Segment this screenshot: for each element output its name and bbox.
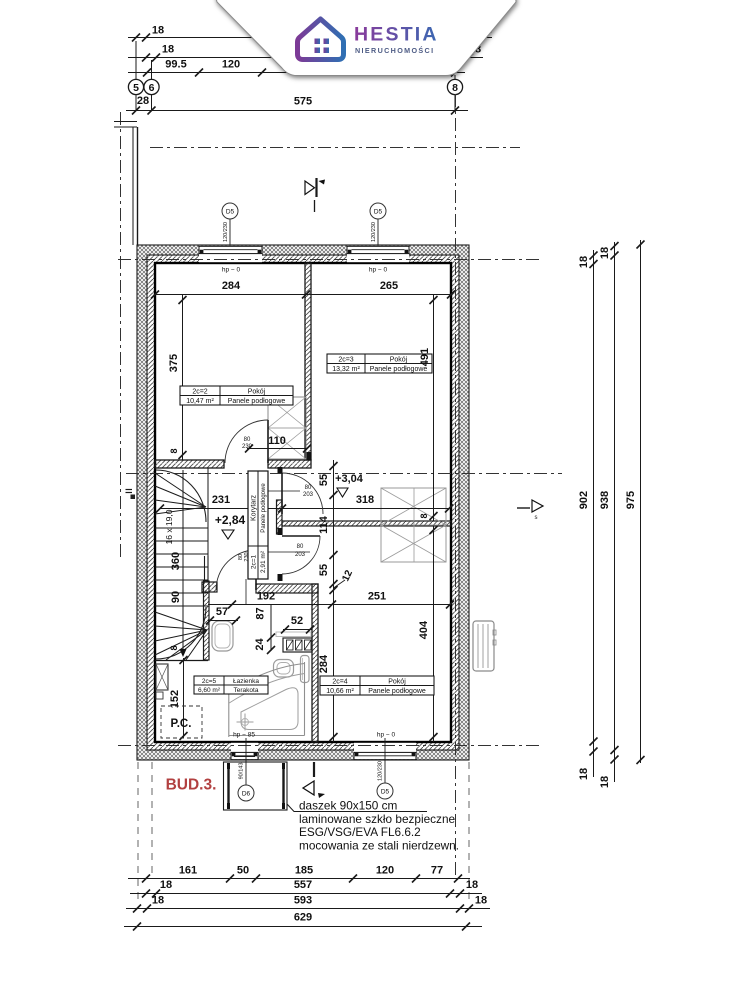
window marker D6 bottom	[245, 738, 247, 787]
interior wall C (thin partition at +3.04)	[282, 521, 451, 526]
svg-text:8: 8	[419, 513, 429, 518]
outer wall layer line	[147, 255, 459, 750]
grid bubble 8	[447, 79, 462, 94]
logo trapezoid card	[214, 0, 516, 76]
svg-text:120/230: 120/230	[371, 222, 377, 242]
svg-text:80: 80	[244, 437, 251, 443]
dim chain 18 (top line2)	[128, 57, 483, 59]
door jamb at wall B bottom	[305, 452, 312, 460]
stair curve top	[156, 470, 206, 522]
svg-text:203: 203	[295, 552, 306, 558]
svg-text:360: 360	[170, 552, 182, 570]
stair winders bottom	[155, 612, 207, 630]
interior wall B (between top rooms)	[305, 263, 311, 460]
wall axis centerline bottom	[118, 745, 540, 747]
svg-text:185: 185	[295, 865, 313, 877]
svg-text:18: 18	[475, 895, 487, 907]
left wall exterior marks	[126, 489, 133, 491]
svg-text:284: 284	[222, 280, 241, 292]
svg-text:P.C.: P.C.	[171, 718, 192, 730]
room table 2c=4 Pokoj	[320, 676, 434, 695]
left roof edge bracket	[114, 121, 137, 123]
room table 2c=5 Lazienka	[194, 676, 268, 694]
svg-text:192: 192	[257, 591, 275, 603]
svg-text:D5: D5	[374, 209, 383, 216]
stairwell right wall upper	[204, 556, 206, 581]
svg-text:Korytarz: Korytarz	[251, 494, 258, 521]
dim 404 (room 2c=4 height)	[433, 526, 435, 742]
svg-text:575: 575	[294, 96, 312, 108]
svg-text:2c=1: 2c=1	[251, 554, 258, 569]
dim chain 18/902/18 (right)	[593, 250, 595, 777]
svg-text:6,60 m²: 6,60 m²	[198, 687, 221, 694]
door D4 bathroom	[255, 550, 257, 590]
window O2 (top right, 120/230)	[347, 246, 409, 262]
svg-text:mocowania ze stali nierdzewn.: mocowania ze stali nierdzewn.	[299, 839, 459, 853]
svg-text:318: 318	[356, 494, 374, 506]
svg-text:2c=5: 2c=5	[202, 678, 217, 685]
svg-text:52: 52	[291, 615, 303, 627]
stair curve bottom	[156, 607, 206, 659]
svg-text:203: 203	[303, 492, 314, 498]
bathroom sink	[212, 621, 233, 651]
svg-text:251: 251	[368, 591, 386, 603]
svg-text:Łazienka: Łazienka	[233, 678, 259, 685]
dim 231 / 318	[160, 508, 449, 510]
svg-text:80: 80	[297, 544, 304, 550]
grid 5 stem	[135, 41, 137, 79]
svg-text:8: 8	[169, 645, 179, 650]
stair winders top	[155, 473, 206, 507]
svg-text:55: 55	[318, 474, 330, 486]
svg-text:938: 938	[599, 491, 611, 509]
canopy daszek outline	[224, 762, 288, 810]
dim chain 18/938/18 (right)	[614, 242, 616, 782]
interior wall A2 (below room 2c=2, right part)	[268, 460, 311, 468]
door D3 lower corridor (80/203)	[282, 535, 320, 537]
window marker D5 bottom	[384, 738, 386, 783]
stairwell right wall lower (hatched)	[204, 581, 210, 660]
svg-text:Panele podłogowe: Panele podłogowe	[261, 483, 267, 533]
svg-text:18: 18	[578, 768, 590, 780]
svg-text:152: 152	[169, 690, 181, 708]
logo house window	[315, 39, 321, 45]
svg-text:77: 77	[431, 865, 443, 877]
logo house icon	[298, 19, 344, 60]
svg-text:120/230: 120/230	[223, 222, 229, 242]
svg-text:90: 90	[170, 591, 182, 603]
svg-text:13,32 m²: 13,32 m²	[332, 366, 360, 373]
svg-text:Panele podłogowe: Panele podłogowe	[368, 688, 426, 695]
outer wall outer face	[137, 245, 469, 760]
section marker bottom	[313, 762, 315, 777]
dim 52	[283, 629, 312, 631]
ridge axis centerline middle	[126, 473, 562, 475]
PC dashed box	[161, 706, 202, 738]
window O3 (bottom right, 120/230)	[354, 743, 416, 759]
svg-text:120: 120	[376, 865, 394, 877]
grid 8 stem	[454, 75, 456, 79]
svg-text:557: 557	[294, 879, 312, 891]
svg-text:2c=3: 2c=3	[338, 356, 353, 363]
svg-text:18: 18	[466, 879, 478, 891]
svg-text:Panele podłogowe: Panele podłogowe	[228, 398, 286, 405]
corridor dim extension	[245, 579, 247, 604]
svg-text:161: 161	[179, 865, 197, 877]
window O4 (bottom bathroom, hp 85)	[231, 743, 258, 759]
svg-text:10,66 m²: 10,66 m²	[326, 688, 354, 695]
interior wall D (bathroom right)	[312, 584, 318, 742]
outer wall crosshatch band	[137, 245, 469, 255]
interior wall E2 (bathroom top, right part)	[256, 584, 318, 593]
dim chain 99.5 / 120 (top line3)	[128, 72, 465, 74]
dim chain 18/593/18 (bottom line3)	[126, 908, 490, 910]
washing machine	[276, 632, 311, 637]
dim 110 (closet)	[247, 448, 308, 450]
room table 2c=3 Pokoj	[327, 354, 432, 373]
stair treads	[155, 527, 208, 529]
left lower guide dashes	[137, 762, 139, 905]
svg-text:284: 284	[318, 654, 330, 673]
dim 491 (room 2c=3 height)	[433, 295, 435, 522]
left roof edge double line	[132, 127, 134, 245]
svg-text:230: 230	[242, 444, 253, 450]
svg-text:57: 57	[216, 606, 228, 618]
dim 375 (room 2c=2 height)	[182, 295, 184, 461]
svg-text:HESTIA: HESTIA	[354, 24, 439, 46]
dim 12 leader	[334, 580, 346, 588]
svg-text:18: 18	[162, 44, 174, 56]
svg-text:120/230: 120/230	[378, 761, 384, 781]
svg-text:87: 87	[255, 607, 267, 619]
dim chain 975 (right)	[640, 240, 642, 763]
stair walking line	[182, 470, 184, 650]
dim chain 629 (bottom line4)	[124, 926, 482, 928]
svg-text:10,47 m²: 10,47 m²	[186, 398, 214, 405]
svg-text:55: 55	[318, 564, 330, 576]
svg-text:90/143: 90/143	[239, 763, 245, 780]
svg-text:18: 18	[578, 256, 590, 268]
dim 284 (x=333 lower)	[333, 605, 335, 743]
threshold lines window O4	[234, 756, 255, 758]
window marker D5 top-right	[377, 219, 379, 245]
dim chain 161/50/185/120/77 (bottom line1)	[128, 878, 470, 880]
canopy leader line	[287, 804, 427, 812]
radiator (outside right wall)	[473, 621, 494, 671]
bathtub corner	[304, 662, 306, 736]
section marker top	[305, 181, 315, 195]
skylight boxes	[381, 488, 446, 562]
wall axis grid-8 vertical	[455, 94, 457, 876]
svg-text:laminowane szkło bezpieczne: laminowane szkło bezpieczne	[299, 812, 456, 826]
outer wall inner hatch band	[147, 255, 459, 263]
svg-text:2,91 m²: 2,91 m²	[260, 550, 267, 573]
svg-text:491: 491	[419, 348, 431, 366]
dim 57	[208, 620, 238, 622]
dim 192 / 251 (y=604)	[208, 604, 451, 606]
grid 6 stem	[151, 60, 153, 79]
dim chain 18/557/18 (bottom line2)	[130, 893, 482, 895]
svg-text:110: 110	[268, 435, 286, 447]
svg-text:6: 6	[149, 82, 155, 94]
svg-text:2c=2: 2c=2	[192, 388, 207, 395]
svg-text:Pokój: Pokój	[390, 356, 408, 363]
svg-text:28: 28	[137, 95, 149, 107]
stair boundary bottom	[155, 660, 208, 662]
door D2 upper corridor (80/203)	[281, 473, 283, 514]
svg-text:24: 24	[254, 638, 266, 651]
svg-text:230: 230	[244, 552, 250, 561]
roof ridge centerline	[150, 147, 520, 149]
dim 152 (PC area)	[183, 658, 185, 738]
door D3 size label	[262, 551, 310, 553]
svg-text:120: 120	[222, 59, 240, 71]
boiler on left wall	[156, 664, 168, 690]
svg-text:99.5: 99.5	[165, 59, 186, 71]
room table 2c=2 Pokoj	[180, 386, 293, 405]
interior wall E1 (bathroom top, left stub)	[202, 582, 217, 592]
svg-text:16 x 19,0: 16 x 19,0	[164, 509, 174, 544]
svg-text:daszek 90x150 cm: daszek 90x150 cm	[299, 799, 398, 813]
svg-text:hp − 0: hp − 0	[369, 267, 388, 274]
svg-text:D6: D6	[242, 791, 251, 798]
svg-text:404: 404	[418, 620, 430, 639]
svg-text:hp − 0: hp − 0	[222, 267, 241, 274]
svg-text:593: 593	[294, 895, 312, 907]
svg-text:902: 902	[578, 491, 590, 509]
svg-text:BUD.3.: BUD.3.	[166, 777, 217, 794]
interior wall stub (corridor right)	[277, 500, 283, 534]
grid bubble 6	[144, 79, 159, 94]
svg-text:Pokój: Pokój	[388, 678, 406, 685]
door jamb blocks corridor	[278, 467, 283, 474]
dim chain 55/114/55/12 (x=333)	[333, 460, 335, 604]
closet with X (room 2c=2)	[268, 397, 306, 459]
svg-text:8: 8	[452, 82, 458, 94]
dim 87 / 24 (x=271)	[270, 605, 272, 652]
toilet	[274, 660, 294, 678]
right lower guide dashes	[468, 762, 470, 905]
window marker D5 top-left	[229, 219, 231, 245]
svg-text:375: 375	[168, 354, 180, 372]
svg-text:50: 50	[237, 865, 249, 877]
svg-text:+3,04: +3,04	[335, 473, 364, 485]
svg-text:629: 629	[294, 912, 312, 924]
interior wall A1 (below room 2c=2, left part)	[155, 460, 224, 468]
svg-text:80: 80	[305, 485, 312, 491]
dim chain 18 (top line1)	[128, 37, 492, 39]
svg-text:2c=4: 2c=4	[332, 678, 347, 685]
grid bubble 5	[128, 79, 143, 94]
outer wall inner face	[155, 263, 451, 742]
svg-text:18: 18	[152, 25, 164, 37]
svg-text:Terakota: Terakota	[234, 687, 259, 694]
door D1 room 2c=2 (80/230)	[267, 420, 269, 463]
dim chain 28 / 575 (top line4)	[126, 110, 468, 112]
svg-text:NIERUCHOMOŚCI: NIERUCHOMOŚCI	[355, 46, 434, 55]
svg-text:hp − 85: hp − 85	[233, 732, 255, 739]
svg-text:18: 18	[160, 879, 172, 891]
svg-text:ESG/VSG/EVA FL6.6.2: ESG/VSG/EVA FL6.6.2	[299, 825, 421, 839]
svg-text:D5: D5	[381, 789, 390, 796]
svg-text:18: 18	[599, 247, 611, 259]
svg-text:hp − 0: hp − 0	[377, 732, 396, 739]
svg-text:Pokój: Pokój	[248, 388, 266, 395]
svg-text:265: 265	[380, 280, 398, 292]
svg-text:8: 8	[169, 448, 179, 453]
svg-text:114: 114	[318, 515, 330, 534]
svg-text:975: 975	[625, 491, 637, 509]
corridor table 2c=1 Korytarz	[248, 471, 268, 579]
svg-text:231: 231	[212, 494, 230, 506]
svg-text:+2,84: +2,84	[215, 513, 246, 527]
door D2 size label	[262, 490, 300, 492]
section marker right	[517, 507, 530, 509]
window O1 (top left, 120/230)	[199, 246, 262, 262]
left eaves centerline	[120, 112, 122, 560]
svg-text:D5: D5	[226, 209, 235, 216]
svg-text:18: 18	[599, 776, 611, 788]
svg-text:s: s	[535, 515, 538, 521]
svg-text:5: 5	[133, 82, 139, 94]
wall axis centerline top	[118, 259, 540, 261]
dim 284 / 265 (rooms width)	[155, 294, 451, 296]
svg-text:18: 18	[152, 895, 164, 907]
